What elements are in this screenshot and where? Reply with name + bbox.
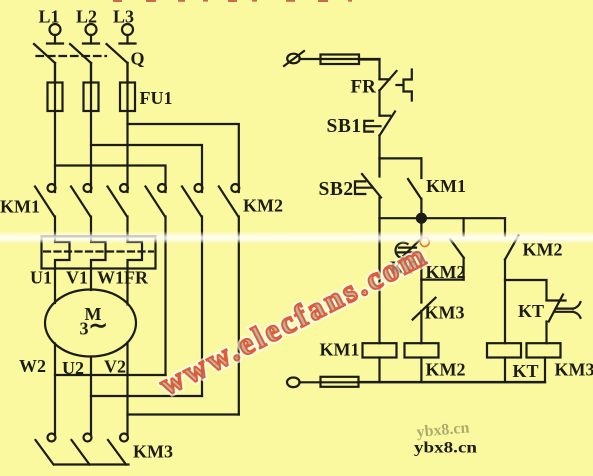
contactor KM2 main contact 3 [219,184,240,415]
svg-text:KM1: KM1 [426,176,466,196]
svg-text:U1: U1 [30,268,52,288]
wire fuse to FR contact [359,60,380,80]
coil KM2 [405,343,439,382]
fuse FU (control bottom) [321,377,359,387]
svg-text:KM3: KM3 [425,303,465,323]
wire delta link U2 to KM2 contact 5 [91,395,202,397]
thermal overload FR box [42,237,156,269]
wire branch split [380,157,422,159]
node junction dot [417,214,426,223]
svg-text:KM3: KM3 [555,360,593,380]
terminal L3 [122,24,133,44]
wire FR to SB1 [378,91,380,116]
wire delta link V2 to KM2 contact 6 [128,413,239,415]
wire L3 fuse to KM1 contact 3 [126,63,128,192]
motor M [45,290,136,357]
wire branch to KT contact [505,280,547,300]
contactor KM3 contact 1 [36,434,56,465]
contact KM3 NC interlock [413,280,436,344]
wire branch L3 to KM2 contact 6 [128,124,239,192]
FR heater element 3 [128,237,143,269]
coil KM3 [527,343,561,382]
fuse FU1 element 2 [84,83,99,112]
wire SB1 to branch split [378,136,380,159]
pushbutton SB1 (NC stop) [364,112,395,136]
svg-text:L1: L1 [39,7,60,27]
wire left branch to KM1 coil [378,218,380,343]
svg-text:KT: KT [518,301,544,321]
switch Q pole 3 [107,44,136,83]
svg-text:ybx8.cn: ybx8.cn [414,440,477,457]
wire bottom rail [359,381,546,383]
wire U1 to motor [54,269,56,304]
svg-text:KM2: KM2 [243,196,283,216]
fuse FU1 element 1 [48,83,63,112]
wire branch L1 to KM2 contact 4 [55,166,166,193]
svg-text:KM1: KM1 [320,340,360,360]
svg-text:SB1: SB1 [327,116,362,137]
watermark www.elecfans.com [154,233,441,402]
FR heater element 1 [55,237,70,269]
svg-text:KM2: KM2 [426,360,466,380]
svg-text:FR: FR [351,77,377,98]
contactor KM1 main contact 1 [35,184,56,237]
wire SB2 to node [378,198,380,219]
terminal L2 [86,24,97,44]
FR NC contact [380,71,397,91]
contact KT NO time-delayed closing [547,295,581,344]
coil KT [487,343,521,382]
control terminal bottom [287,378,300,388]
contactor KM1 main contact 2 [71,184,92,237]
svg-text:FR: FR [124,268,149,288]
wire node rail [380,217,506,219]
wire V2 motor to KM3 contact 3 [126,343,128,435]
contactor KM3 contact 3 [108,434,128,465]
FR linkage (dashed) [44,250,153,252]
svg-text:U2: U2 [62,358,84,378]
terminal L1 [50,24,61,44]
white scanline band [0,232,593,244]
wire KM3 star bridge [54,463,129,465]
svg-text:SB2: SB2 [319,179,354,200]
wire W1 to motor [126,269,128,305]
wire U2 motor to KM3 contact 2 [90,357,92,435]
svg-text:V1: V1 [66,268,88,288]
wire parallel join [421,279,463,281]
fuse FU1 element 3 [120,83,135,112]
wire KM2 contact to KT coil [504,260,506,344]
control terminal top [284,51,304,66]
fuse FU (control top) [321,55,360,65]
svg-text:L3: L3 [113,7,134,27]
wire delta link W2 to KM2 contact 4 [55,374,166,376]
contact KM2 NO auxiliary [505,218,519,259]
contactor KM2 main contact 2 [182,184,203,396]
wire branch L2 to KM2 contact 5 [91,145,202,192]
wire V1 to motor [90,269,92,291]
switch Q pole 1 [34,44,63,83]
svg-text:FU1: FU1 [140,88,173,108]
pushbutton SB2 (NO start) [355,158,381,197]
contact KT NC time-delayed [396,222,422,280]
svg-text:KT: KT [513,361,539,381]
svg-text:L2: L2 [76,7,97,27]
svg-text:KM3: KM3 [133,442,173,462]
contact KM2 NC interlock [450,218,464,279]
contactor KM1 main contact 3 [108,184,129,237]
FR heater element 2 [91,237,106,269]
svg-text:W2: W2 [19,356,46,376]
wire W2 motor to KM3 contact 1 [54,344,56,435]
wire terminal to fuse [300,58,380,60]
wire L2 fuse to KM1 contact 2 [90,63,92,192]
top edge red text remnants [113,0,352,2]
svg-text:Q: Q [131,49,145,69]
contactor KM3 contact 2 [72,434,92,465]
FR thermal actuator [397,70,412,101]
contactor KM2 main contact 1 [146,184,167,375]
switch Q pole 2 [70,44,99,83]
contact KM1 auxiliary (NO) [408,158,421,218]
svg-text:V2: V2 [104,357,126,377]
wire L1 fuse to KM1 contact 1 [54,63,56,192]
svg-text:KM1: KM1 [0,197,40,217]
svg-text:W1: W1 [97,268,124,288]
coil KM1 [363,343,397,382]
switch Q linkage (dashed) [37,55,107,57]
wire terminal to bottom fuse [299,381,545,383]
